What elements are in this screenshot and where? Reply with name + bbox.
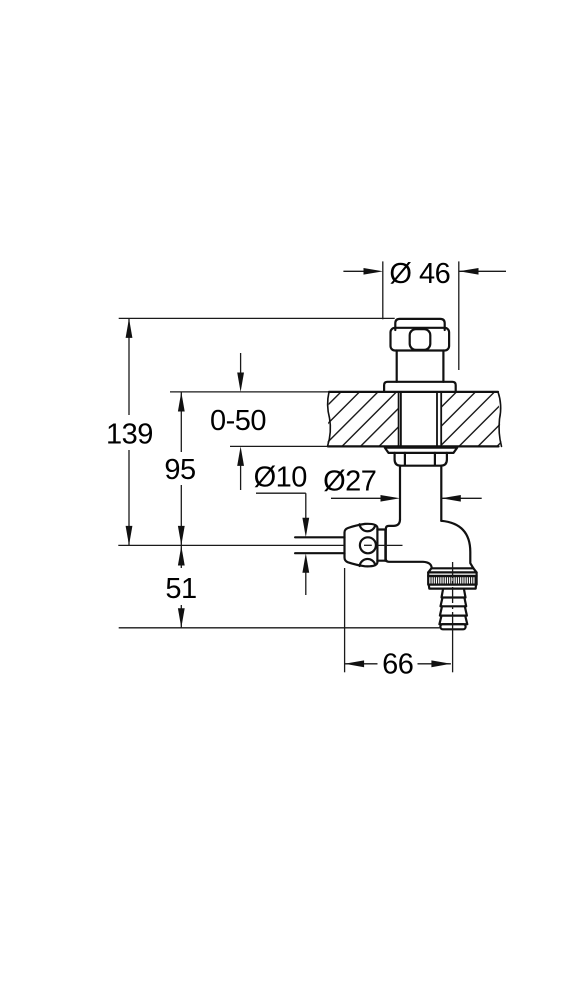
svg-text:0-50: 0-50	[210, 405, 266, 437]
svg-text:Ø27: Ø27	[323, 466, 376, 498]
svg-text:Ø 46: Ø 46	[389, 258, 450, 290]
svg-text:139: 139	[106, 419, 153, 451]
svg-text:51: 51	[165, 573, 196, 605]
svg-text:95: 95	[164, 454, 195, 486]
svg-text:Ø10: Ø10	[254, 462, 307, 494]
svg-text:66: 66	[382, 649, 413, 681]
